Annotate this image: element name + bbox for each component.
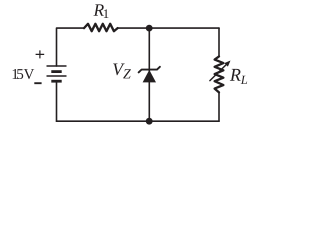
battery plus sign: [36, 50, 45, 58]
zener diode D1 anode triangle: [143, 70, 156, 83]
RL variable-resistor arrow shaft: [210, 64, 227, 80]
battery B1 15V: [47, 66, 67, 81]
label VZ letter V: [113, 64, 124, 76]
wire: battery top to top-left corner to R1 left: [57, 28, 85, 66]
label VZ subscript Z: [123, 69, 131, 78]
label RL subscript L: [241, 76, 248, 84]
label RL letter R: [230, 69, 241, 81]
RL variable-resistor arrowhead: [224, 61, 230, 67]
wire: left rail lower: [56, 81, 58, 121]
wire: zener branch vertical: [148, 28, 150, 121]
label R1 subscript 1: [104, 9, 109, 18]
label 15V digit 5: [17, 69, 23, 79]
junction dot top node: [146, 25, 153, 32]
resistor R1 zigzag: [84, 24, 118, 31]
resistor RL zigzag: [215, 56, 224, 92]
battery long plate: [47, 75, 67, 77]
label 15V digit 1: [13, 69, 18, 79]
zener diode D1 cathode bar with bent tails: [139, 67, 160, 73]
wire: R1 right to top-right corner: [118, 27, 219, 29]
label R1 letter R: [93, 4, 103, 15]
junction dot bottom node: [146, 118, 153, 125]
battery short thick plate: [51, 70, 61, 73]
label 15V letter V: [24, 69, 34, 79]
battery short thick plate (-): [51, 80, 61, 83]
wire: bottom rail: [57, 120, 220, 122]
battery minus sign: [34, 82, 41, 84]
wire: right rail upper: [218, 28, 220, 56]
battery long plate (+): [47, 65, 67, 67]
wire: right rail lower: [218, 92, 220, 121]
